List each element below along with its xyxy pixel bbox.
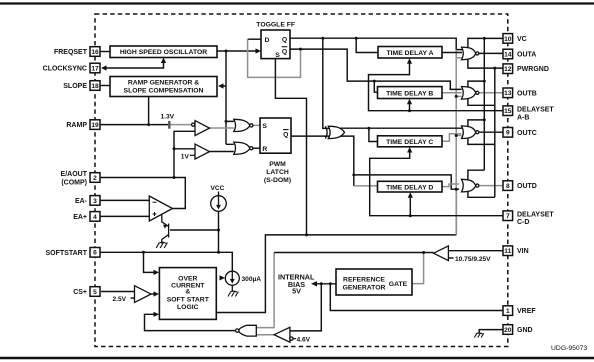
comparator VREF 4.6V — [274, 327, 293, 342]
svg-text:14: 14 — [504, 51, 512, 58]
svg-text:(S-DOM): (S-DOM) — [264, 177, 291, 184]
wire time delay B output (gray) — [442, 92, 462, 94]
pin 3 EA- box — [90, 196, 100, 206]
wire UVLO comparator output line — [274, 252, 433, 254]
svg-text:4.6V: 4.6V — [297, 336, 311, 343]
wire VIN pin line — [448, 250, 503, 252]
pin 1 VREF box — [503, 306, 513, 316]
wire time delay D output (gray) — [442, 184, 459, 187]
arrow into 300uA source — [220, 275, 226, 280]
ground at transistor — [156, 242, 167, 248]
svg-text:TOGGLE FF: TOGGLE FF — [256, 21, 295, 28]
svg-text:12: 12 — [504, 66, 512, 73]
wire reference generator to internal bias — [314, 283, 337, 285]
wire CS+ pin line — [101, 291, 135, 293]
svg-text:OUTC: OUTC — [517, 130, 537, 137]
wire SLOPE to ramp generator — [100, 85, 110, 87]
wire 10.75/9.25V stub — [448, 257, 453, 259]
pin 8 OUTD box — [503, 181, 513, 191]
svg-text:TIME DELAY C: TIME DELAY C — [386, 139, 433, 146]
comparator PWM (ramp vs E/AOUT) — [192, 121, 210, 136]
wire 1V comparator output — [210, 151, 234, 153]
svg-text:PWRGND: PWRGND — [517, 66, 549, 73]
pin 18 SLOPE box — [90, 81, 100, 91]
svg-text:5V: 5V — [292, 287, 301, 296]
wire NOR1 output to latch S (gray) — [252, 124, 261, 126]
svg-text:9: 9 — [506, 130, 510, 137]
wire NOR2 output to latch R — [252, 147, 261, 149]
block ramp generator and slope compensation — [110, 77, 217, 97]
pin 14 OUTA box — [503, 49, 513, 59]
wire over current logic output right — [216, 235, 456, 313]
pin 15 DELAYSET A-B box — [503, 106, 513, 116]
svg-text:1.3V: 1.3V — [161, 114, 175, 121]
svg-text:2: 2 — [93, 175, 97, 182]
wire oscillator output clock to toggle FF — [217, 50, 259, 52]
svg-text:8: 8 — [506, 183, 510, 190]
pin 9 OUTC box — [503, 128, 513, 138]
wire time delay C output (gray) — [442, 134, 461, 142]
wire VREF sense to 4.6V comparator — [291, 284, 322, 331]
pin 20 GND box — [503, 325, 513, 335]
wire OUTC gate output to pin 9 — [479, 131, 504, 133]
current source VCC — [211, 193, 227, 212]
wire VCC current source to transistor base and softstart line — [218, 211, 220, 252]
arrow delayset into time delay B — [407, 99, 412, 105]
svg-text:LATCH: LATCH — [266, 169, 289, 176]
wire EA- pin line — [100, 199, 149, 201]
wire RAMP pin line — [100, 124, 168, 126]
svg-text:S: S — [275, 52, 280, 59]
svg-text:VCC: VCC — [211, 185, 225, 192]
svg-text:3: 3 — [93, 198, 97, 205]
current source 300uA — [225, 271, 239, 291]
svg-text:CS+: CS+ — [73, 289, 87, 296]
pin 10 VC box — [503, 34, 513, 44]
svg-text:UDG-95073: UDG-95073 — [551, 345, 587, 352]
wire softstart branch to over current logic — [144, 252, 157, 272]
svg-text:GND: GND — [517, 327, 533, 334]
svg-text:TIME DELAY B: TIME DELAY B — [386, 91, 433, 98]
wire toggle FF D input — [248, 38, 261, 40]
wire Q branch to time delay A input — [356, 38, 378, 52]
svg-text:(COMP): (COMP) — [61, 180, 87, 187]
wire 4.6V stub — [293, 338, 296, 340]
svg-text:REFERENCE: REFERENCE — [343, 277, 385, 284]
svg-text:&: & — [185, 289, 190, 296]
wire PWRGND line and rail — [468, 59, 504, 197]
svg-text:PWM: PWM — [269, 161, 286, 168]
comparator CS overcurrent 2.5V — [135, 286, 152, 303]
svg-text:15: 15 — [504, 108, 512, 115]
wire clock vertical bus — [221, 51, 234, 144]
pin 2 E/AOUT box — [90, 173, 100, 183]
wire XOR branch to time delay C input — [369, 128, 378, 141]
wire UVLO to reference gate (gray) — [412, 253, 424, 284]
wire SOFTSTART pin line to 300uA source — [100, 252, 232, 271]
wire toggle FF S line down (gray) — [275, 59, 306, 235]
wire DELAYSET A-B pin line — [369, 61, 504, 111]
svg-text:VC: VC — [517, 36, 527, 43]
svg-text:1V: 1V — [181, 153, 190, 160]
arrow clocksync up into oscillator — [161, 58, 166, 64]
svg-text:SLOPE COMPENSATION: SLOPE COMPENSATION — [124, 88, 204, 95]
svg-text:Q: Q — [283, 131, 288, 138]
arrow softstart into over current logic — [154, 270, 160, 275]
arrow CS comparator into over current logic — [154, 291, 160, 296]
wire latch Qbar branch to OUTD gate — [354, 175, 459, 189]
svg-text:TIME DELAY A: TIME DELAY A — [387, 50, 434, 57]
svg-text:R: R — [262, 146, 267, 153]
svg-text:EA+: EA+ — [73, 214, 87, 221]
gate NOR output D — [462, 179, 476, 192]
wire fault line up to OUTD gate (gray) — [455, 189, 457, 235]
IC boundary (dashed) — [95, 14, 508, 347]
comparator 1V — [195, 144, 210, 159]
svg-text:VIN: VIN — [517, 248, 529, 255]
transistor Q1 clamp — [162, 215, 169, 244]
NOR gate S input — [234, 119, 250, 131]
svg-text:GENERATOR: GENERATOR — [343, 285, 386, 292]
arrow into CLOCKSYNC pin — [101, 65, 107, 70]
wire toggle FF feedback Qbar to D (gray) — [248, 39, 301, 77]
block reference generator — [336, 269, 412, 295]
svg-text:HIGH SPEED OSCILLATOR: HIGH SPEED OSCILLATOR — [120, 49, 207, 56]
block time delay B — [378, 87, 443, 99]
svg-text:5: 5 — [93, 289, 97, 296]
svg-text:VREF: VREF — [517, 308, 536, 315]
svg-text:SOFTSTART: SOFTSTART — [46, 250, 88, 257]
wire XOR output to OUTC gate — [339, 127, 462, 129]
wire 4.6V comparator output to NAND (gray) — [256, 334, 274, 336]
wire latch Qbar into time delay D (gray) — [354, 185, 378, 187]
svg-text:300µA: 300µA — [242, 276, 262, 283]
bottom page rule — [0, 357, 594, 359]
gate NOR output B — [462, 86, 476, 99]
svg-text:C-D: C-D — [517, 219, 529, 226]
top page rule — [0, 2, 594, 4]
wire Qbar branch to time delay B input — [374, 81, 377, 92]
wire CS comparator output to over current logic — [151, 293, 157, 295]
arrow NAND into over current logic — [154, 312, 160, 317]
arrow reference to internal bias — [311, 281, 317, 286]
pin 7 DELAYSET C-D box — [503, 211, 513, 221]
wire OUTD gate output to pin 8 (gray) — [479, 185, 504, 187]
arrow clock into ramp generator — [218, 83, 224, 88]
wire FREQSET to oscillator — [100, 51, 110, 53]
pin 5 CS+ box — [90, 287, 100, 297]
wire EA+ pin line — [100, 215, 149, 217]
svg-text:OUTB: OUTB — [517, 90, 537, 97]
svg-text:RAMP GENERATOR &: RAMP GENERATOR & — [128, 80, 199, 87]
wire toggle FF Qbar to OUTB gate — [290, 49, 462, 89]
svg-text:DELAYSET: DELAYSET — [517, 211, 554, 218]
svg-text:OUTD: OUTD — [517, 183, 537, 190]
svg-text:19: 19 — [91, 122, 99, 129]
svg-text:SOFT START: SOFT START — [167, 297, 210, 304]
wire Q branch to XOR upper input — [323, 38, 330, 128]
svg-text:6: 6 — [93, 250, 97, 257]
svg-text:16: 16 — [91, 49, 99, 56]
wire DELAYSET C-D pin line — [370, 150, 504, 216]
svg-text:10: 10 — [504, 36, 512, 43]
wire NAND output to over current logic — [145, 314, 237, 330]
op-amp error amplifier — [149, 196, 172, 221]
pin 19 RAMP box — [90, 120, 100, 130]
svg-text:LOGIC: LOGIC — [177, 304, 199, 311]
ground below 300uA source — [228, 291, 238, 296]
svg-text:7: 7 — [506, 213, 510, 220]
wire VC line and rail — [468, 38, 504, 180]
pin 6 SOFTSTART box — [90, 248, 100, 258]
NOR gate R input — [234, 142, 250, 154]
wire 1V stub — [190, 154, 195, 156]
pin 12 PWRGND box — [503, 64, 513, 74]
wire PWM comparator output (gray) — [210, 127, 234, 129]
gate NAND shutdown — [236, 325, 257, 336]
svg-text:13: 13 — [504, 90, 512, 97]
PWM latch U2 — [260, 118, 291, 153]
wire E/AOUT (COMP) pin line — [100, 178, 185, 209]
svg-text:18: 18 — [91, 83, 99, 90]
svg-text:A-B: A-B — [517, 114, 529, 121]
gate XOR phase — [325, 126, 344, 138]
gate NOR output C — [462, 126, 476, 139]
wire toggle FF Q output line — [290, 38, 462, 49]
block high speed oscillator — [110, 46, 217, 58]
arrow delayset into time delay C — [407, 147, 412, 153]
wire transistor base — [170, 229, 219, 231]
svg-text:DELAYSET: DELAYSET — [517, 106, 554, 113]
wire ramp generator output to RAMP line — [148, 97, 150, 125]
pin 13 OUTB box — [503, 88, 513, 98]
block time delay A — [378, 47, 442, 59]
arrow delayset into time delay D — [408, 192, 413, 198]
svg-text:OVER: OVER — [178, 275, 197, 282]
svg-text:Q: Q — [282, 49, 287, 56]
wire VREF pin line — [330, 284, 503, 311]
svg-text:17: 17 — [91, 65, 99, 72]
svg-text:E/AOUT: E/AOUT — [61, 171, 88, 178]
clamp tick 1.3V — [168, 121, 170, 129]
wire E/AOUT vertical to comparators — [174, 131, 195, 177]
pin 4 EA+ box — [90, 212, 100, 222]
ground at GND pin — [474, 333, 483, 338]
wire PWM latch Qbar output — [291, 136, 354, 186]
svg-text:1: 1 — [506, 308, 510, 315]
wire 1.3V clamp to PWM comparator (gray) — [170, 124, 191, 126]
svg-text:10.75/9.25V: 10.75/9.25V — [455, 256, 491, 263]
svg-text:11: 11 — [504, 248, 511, 255]
svg-text:GATE: GATE — [389, 281, 408, 288]
svg-text:SLOPE: SLOPE — [63, 83, 87, 90]
svg-text:FREQSET: FREQSET — [54, 49, 88, 56]
svg-text:20: 20 — [504, 327, 512, 334]
arrowheads — [101, 48, 413, 317]
wire VCC stub — [218, 192, 220, 196]
arrow clock into toggle FF — [256, 48, 262, 53]
svg-text:4: 4 — [93, 214, 97, 221]
wire CLOCKSYNC to oscillator — [104, 60, 164, 69]
block time delay D — [378, 181, 443, 192]
pin 11 VIN box — [503, 246, 513, 256]
wire Q vertical bus to output gates (gray) — [456, 50, 462, 235]
svg-text:CLOCKSYNC: CLOCKSYNC — [43, 66, 87, 73]
block over current and soft start logic — [159, 268, 216, 320]
svg-text:EA-: EA- — [75, 198, 88, 205]
gate NOR output A — [462, 47, 476, 60]
block time delay C — [378, 136, 443, 147]
wire GND pin line — [479, 330, 503, 334]
pin 16 FREQSET box — [90, 47, 100, 57]
svg-text:2.5V: 2.5V — [113, 296, 127, 303]
toggle FF U1 — [261, 30, 290, 59]
svg-text:S: S — [262, 123, 267, 130]
wire OUTB gate output to pin 13 (gray) — [479, 92, 504, 94]
svg-text:RAMP: RAMP — [66, 122, 87, 129]
pin 17 CLOCKSYNC box — [90, 63, 100, 73]
svg-text:D: D — [265, 37, 270, 44]
wire OUTA gate output to pin 14 — [479, 52, 504, 54]
wire 2.5V stub to CS comparator — [131, 297, 135, 299]
arrow delayset into time delay A — [407, 58, 412, 64]
svg-text:TIME DELAY D: TIME DELAY D — [386, 185, 433, 192]
wire UVLO vertical to NAND upper input (gray) — [256, 253, 274, 328]
wire time delay A output — [442, 52, 462, 54]
svg-text:Q: Q — [282, 37, 287, 44]
comparator UVLO VIN 10.75/9.25V — [434, 246, 449, 261]
svg-text:OUTA: OUTA — [517, 52, 536, 59]
